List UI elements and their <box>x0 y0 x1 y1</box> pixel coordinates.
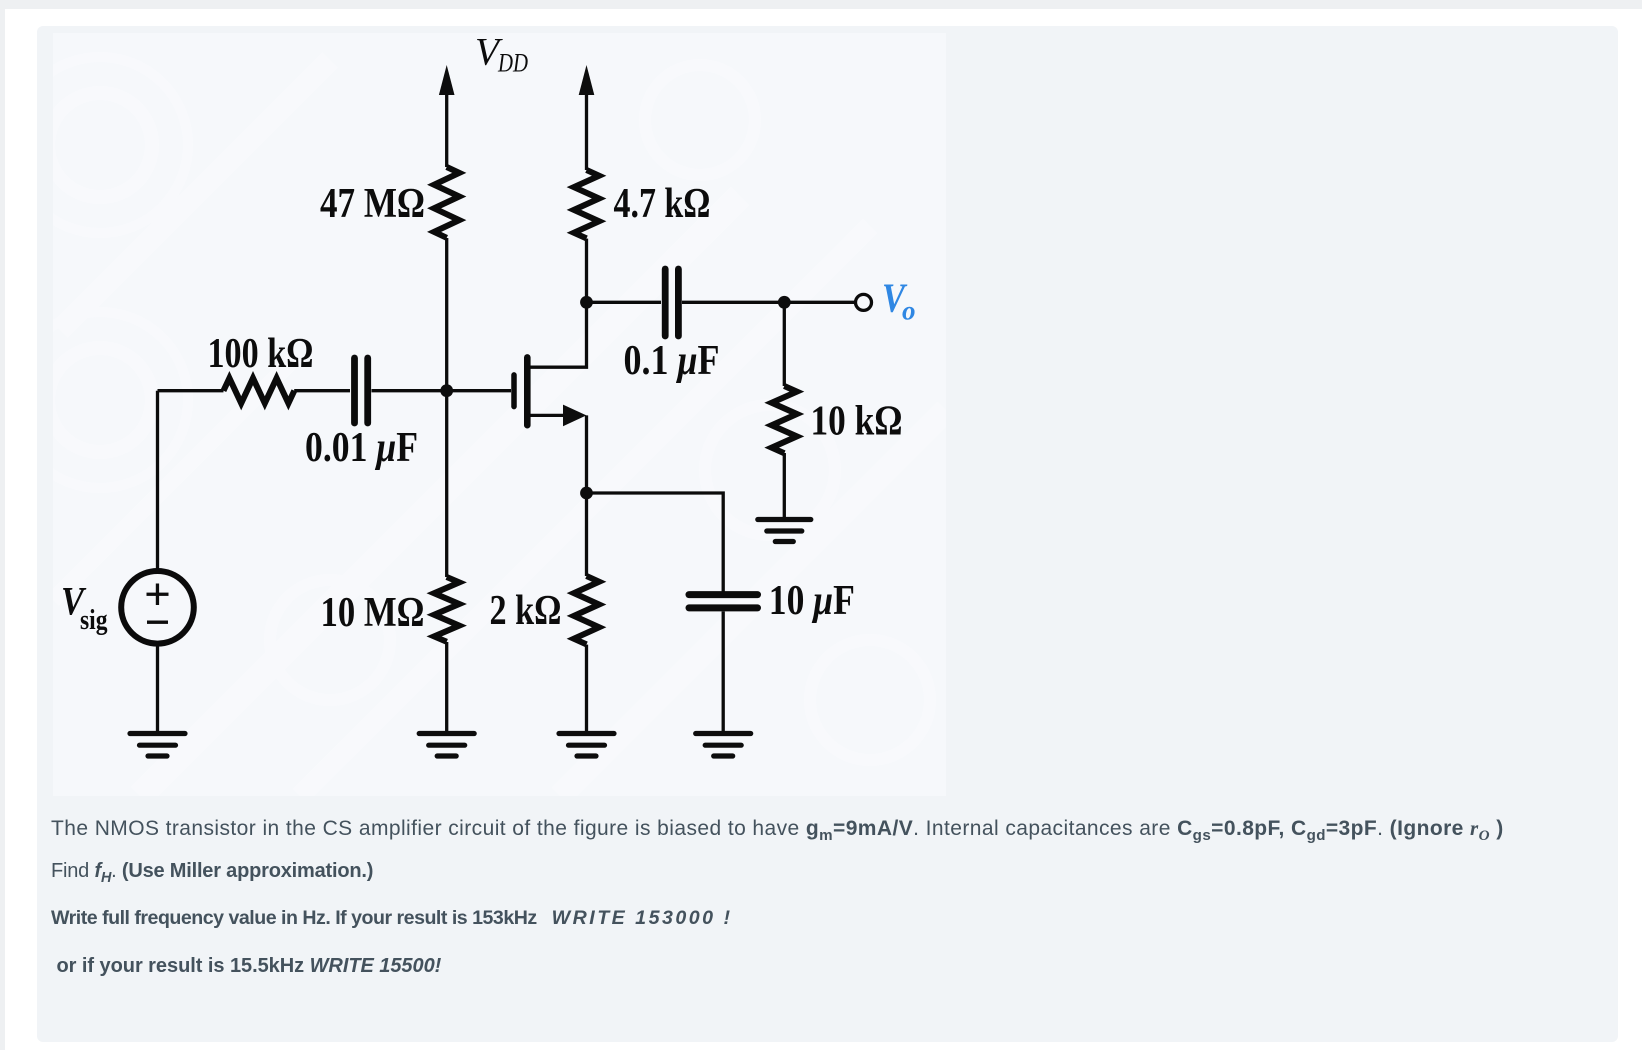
svg-text:10 kΩ: 10 kΩ <box>811 399 903 445</box>
wire: 100k to input cap <box>294 389 350 392</box>
svg-text:DD: DD <box>497 49 528 78</box>
ground: 10k <box>758 520 811 542</box>
ground: 2k <box>559 734 614 757</box>
node: source junction <box>580 487 593 500</box>
resistor R1 47 MOhm <box>434 167 459 238</box>
node: drain junction <box>580 296 593 309</box>
scan background <box>53 33 946 796</box>
question text line 1 <box>51 817 1504 840</box>
wire: 10k to its ground <box>783 453 786 518</box>
wire: Vo node down to 10k <box>783 302 786 386</box>
VDD arrowhead 47M branch <box>439 65 455 95</box>
svg-text:10 μF: 10 μF <box>769 578 855 624</box>
svg-text:o: o <box>902 296 916 326</box>
resistor R2 4.7 kOhm <box>574 170 599 238</box>
resistor RL 10 kOhm <box>772 386 797 453</box>
wire: 4.7k bottom to drain node <box>585 239 588 303</box>
ground: Vsig <box>130 734 185 757</box>
svg-text:4.7 kΩ: 4.7 kΩ <box>614 181 711 227</box>
NMOS Q1 source lead <box>529 414 566 417</box>
svg-text:2 kΩ: 2 kΩ <box>490 588 562 634</box>
wire: cap to Vo node <box>682 301 855 304</box>
node: output junction <box>778 296 791 309</box>
output terminal circle <box>856 294 872 310</box>
svg-text:0.1 μF: 0.1 μF <box>624 338 720 384</box>
wire: 47M bottom to gate node and on to 10M <box>445 238 448 577</box>
NMOS Q1: gate wire <box>158 389 224 392</box>
page top strip <box>0 0 1642 9</box>
source Vsig circle <box>121 571 194 644</box>
wire: 10M to ground <box>445 642 448 731</box>
wire: source down to source node <box>585 415 588 493</box>
wire: source node to bypass cap <box>587 493 724 592</box>
ground: 10uF <box>696 734 751 757</box>
svg-text:100 kΩ: 100 kΩ <box>208 331 314 377</box>
NMOS Q1 gate bar <box>511 375 517 407</box>
svg-text:sig: sig <box>80 604 108 636</box>
question text line 3 <box>51 907 733 929</box>
NMOS Q1 drain lead <box>529 302 587 367</box>
wire: 2k to ground <box>585 645 588 731</box>
resistor R3 10 MOhm <box>434 577 459 642</box>
circuit scan image <box>53 33 946 796</box>
resistor Rsig 100 kOhm <box>224 378 295 403</box>
wire: VDD lead of 4.7k branch <box>585 84 588 170</box>
svg-text:10 MΩ: 10 MΩ <box>321 590 425 636</box>
question text line 4 <box>51 955 441 977</box>
wire: source node down to 2k <box>585 493 588 576</box>
resistor RS 2 kOhm <box>574 576 599 644</box>
NMOS Q1 source arrowhead <box>563 405 586 427</box>
wire: Vsig top <box>156 391 159 571</box>
plus sign of Vsig <box>147 593 169 596</box>
wire: bypass cap to ground <box>722 612 725 732</box>
svg-text:47 MΩ: 47 MΩ <box>320 181 425 227</box>
NMOS Q1 channel bar <box>524 357 531 425</box>
svg-text:0.01 μF: 0.01 μF <box>305 425 418 471</box>
wire: VDD lead of 47M branch <box>445 84 448 167</box>
capacitor C1 0.01 uF input <box>355 358 368 423</box>
wire: drain node to output cap <box>587 301 662 304</box>
capacitor C2 0.1 uF output <box>665 269 678 336</box>
capacitor C3 10 uF bypass <box>689 595 758 608</box>
wire: input cap to gate <box>372 389 512 392</box>
ground: 10M <box>419 734 474 757</box>
wire: Vsig bottom to ground <box>156 646 159 731</box>
minus sign of Vsig <box>147 621 168 624</box>
page left strip <box>0 9 5 1050</box>
question text line 2 <box>51 860 373 882</box>
node: gate junction <box>440 384 453 397</box>
VDD arrowhead 4.7k branch <box>579 65 595 95</box>
